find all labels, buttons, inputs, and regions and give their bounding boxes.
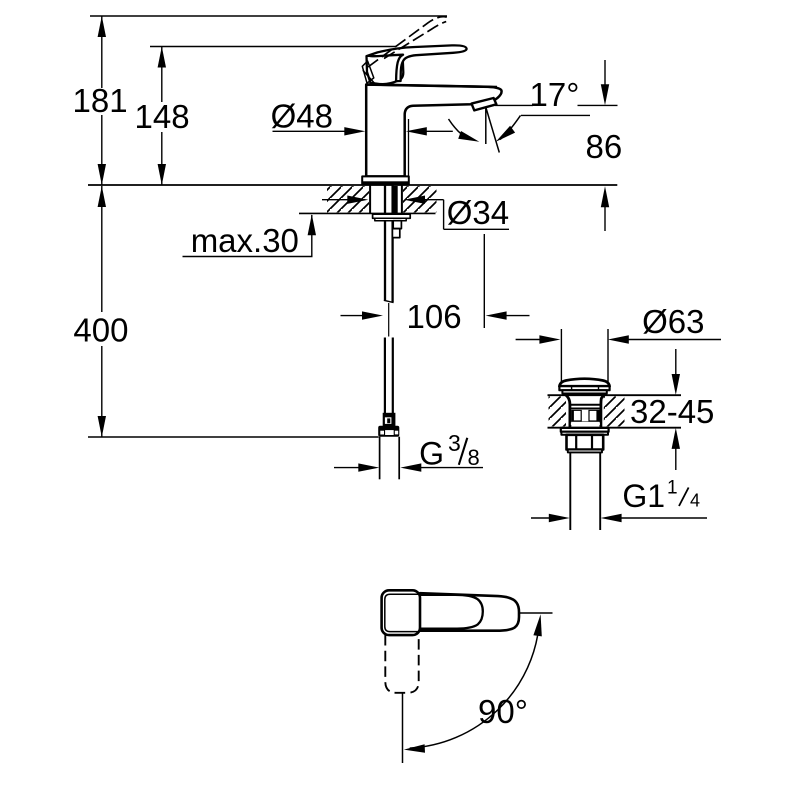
spout outlet reference line — [495, 104, 533, 106]
deck hatching right of shank — [403, 186, 437, 212]
drain flange dome — [559, 379, 609, 387]
handle corner detail — [362, 61, 374, 83]
svg-text:181: 181 — [73, 82, 128, 119]
pipe break centerline — [388, 303, 390, 337]
top view lever plate — [388, 595, 483, 629]
dimension Ø34 with stepped leader — [322, 194, 509, 231]
top reference line (181 top) — [90, 15, 447, 17]
svg-text:86: 86 — [586, 128, 623, 165]
handle corner diagonal — [363, 70, 375, 83]
svg-text:G: G — [419, 436, 444, 472]
dimension 400 — [73, 186, 128, 437]
90° arc — [410, 622, 540, 748]
body inner highlight line — [408, 119, 410, 176]
svg-text:3: 3 — [448, 430, 461, 456]
svg-text:148: 148 — [135, 98, 190, 135]
svg-text:Ø48: Ø48 — [271, 98, 333, 135]
handle lever blade — [368, 45, 467, 81]
bottom reference line (400) — [88, 436, 379, 438]
svg-text:106: 106 — [407, 298, 462, 335]
dimension 106 — [341, 298, 530, 335]
faucet body and spout outline — [366, 85, 501, 177]
dimension 148 — [135, 47, 190, 186]
swivel centerline — [402, 694, 404, 764]
Ø63 extension lines — [560, 329, 562, 382]
mounting shank right wall — [401, 186, 403, 214]
supply pipe lower segment — [384, 338, 386, 414]
deck hatching left of shank — [327, 186, 369, 212]
dimension Ø48 — [271, 98, 453, 136]
dimension max.30 — [183, 214, 317, 259]
148 reference line — [150, 46, 396, 48]
drain tailpipe — [569, 452, 571, 530]
non-return valve — [383, 413, 396, 426]
drain deck hatch right — [604, 396, 625, 426]
svg-text:400: 400 — [73, 312, 128, 349]
fastening washer under deck — [373, 214, 411, 218]
angle arc left with arrow — [449, 119, 480, 142]
G3/8 connection pipe — [379, 437, 381, 480]
drain nut lower ring — [568, 450, 602, 453]
dimension G3/8 — [334, 430, 483, 472]
svg-text:4: 4 — [690, 491, 700, 511]
svg-text:90°: 90° — [478, 693, 528, 730]
jet direction line 17° — [485, 105, 499, 153]
drain deck hatch left — [549, 396, 567, 426]
drain deck bottom line — [548, 427, 682, 429]
17 degree leader line — [521, 114, 590, 116]
drain deck top line — [548, 394, 682, 396]
svg-text:17°: 17° — [530, 76, 580, 113]
deck bottom line — [299, 212, 436, 214]
deck top line — [88, 184, 617, 186]
svg-text:Ø34: Ø34 — [447, 194, 509, 231]
plumb line below aerator — [485, 107, 487, 144]
drain locknut — [567, 435, 604, 450]
mounting shank left wall — [369, 186, 371, 214]
top view pivot cap — [382, 590, 420, 635]
supply pipe upper segment — [384, 185, 386, 301]
body top edge restroke — [366, 85, 497, 87]
angle arc right with arrow — [496, 115, 521, 141]
base plate — [362, 176, 409, 184]
threaded stud bar in shank — [393, 186, 398, 213]
aerator — [472, 98, 497, 110]
svg-text:32-45: 32-45 — [630, 393, 714, 430]
svg-text:1: 1 — [667, 478, 678, 499]
svg-text:Ø63: Ø63 — [642, 303, 704, 340]
dimension G1 1/4 — [531, 478, 707, 523]
svg-text:G1: G1 — [622, 478, 665, 514]
svg-text:max.30: max.30 — [191, 222, 299, 259]
drain flange rim — [559, 386, 609, 390]
pivot cap inner line — [385, 594, 419, 631]
top view grip outline — [420, 593, 519, 631]
threaded stud steps — [393, 221, 401, 229]
raised handle dashed line upper — [368, 17, 447, 67]
dashed rotated handle — [385, 635, 418, 693]
drain body in deck — [563, 394, 607, 428]
arc arrow bottom — [404, 744, 425, 752]
dimension 181 — [73, 16, 128, 185]
cartridge cover under handle — [367, 54, 404, 84]
extension line for 106 (spout axis) — [483, 234, 485, 328]
dimension 86 — [586, 60, 623, 231]
dimension 32-45 — [630, 349, 714, 470]
raised handle dashed line lower — [384, 22, 446, 59]
dimension Ø63 — [516, 303, 721, 344]
arc arrow top — [533, 614, 541, 636]
connection nut — [378, 426, 399, 437]
svg-text:8: 8 — [468, 445, 480, 470]
drain washer under deck — [561, 428, 609, 432]
swivel reference line — [519, 612, 553, 614]
